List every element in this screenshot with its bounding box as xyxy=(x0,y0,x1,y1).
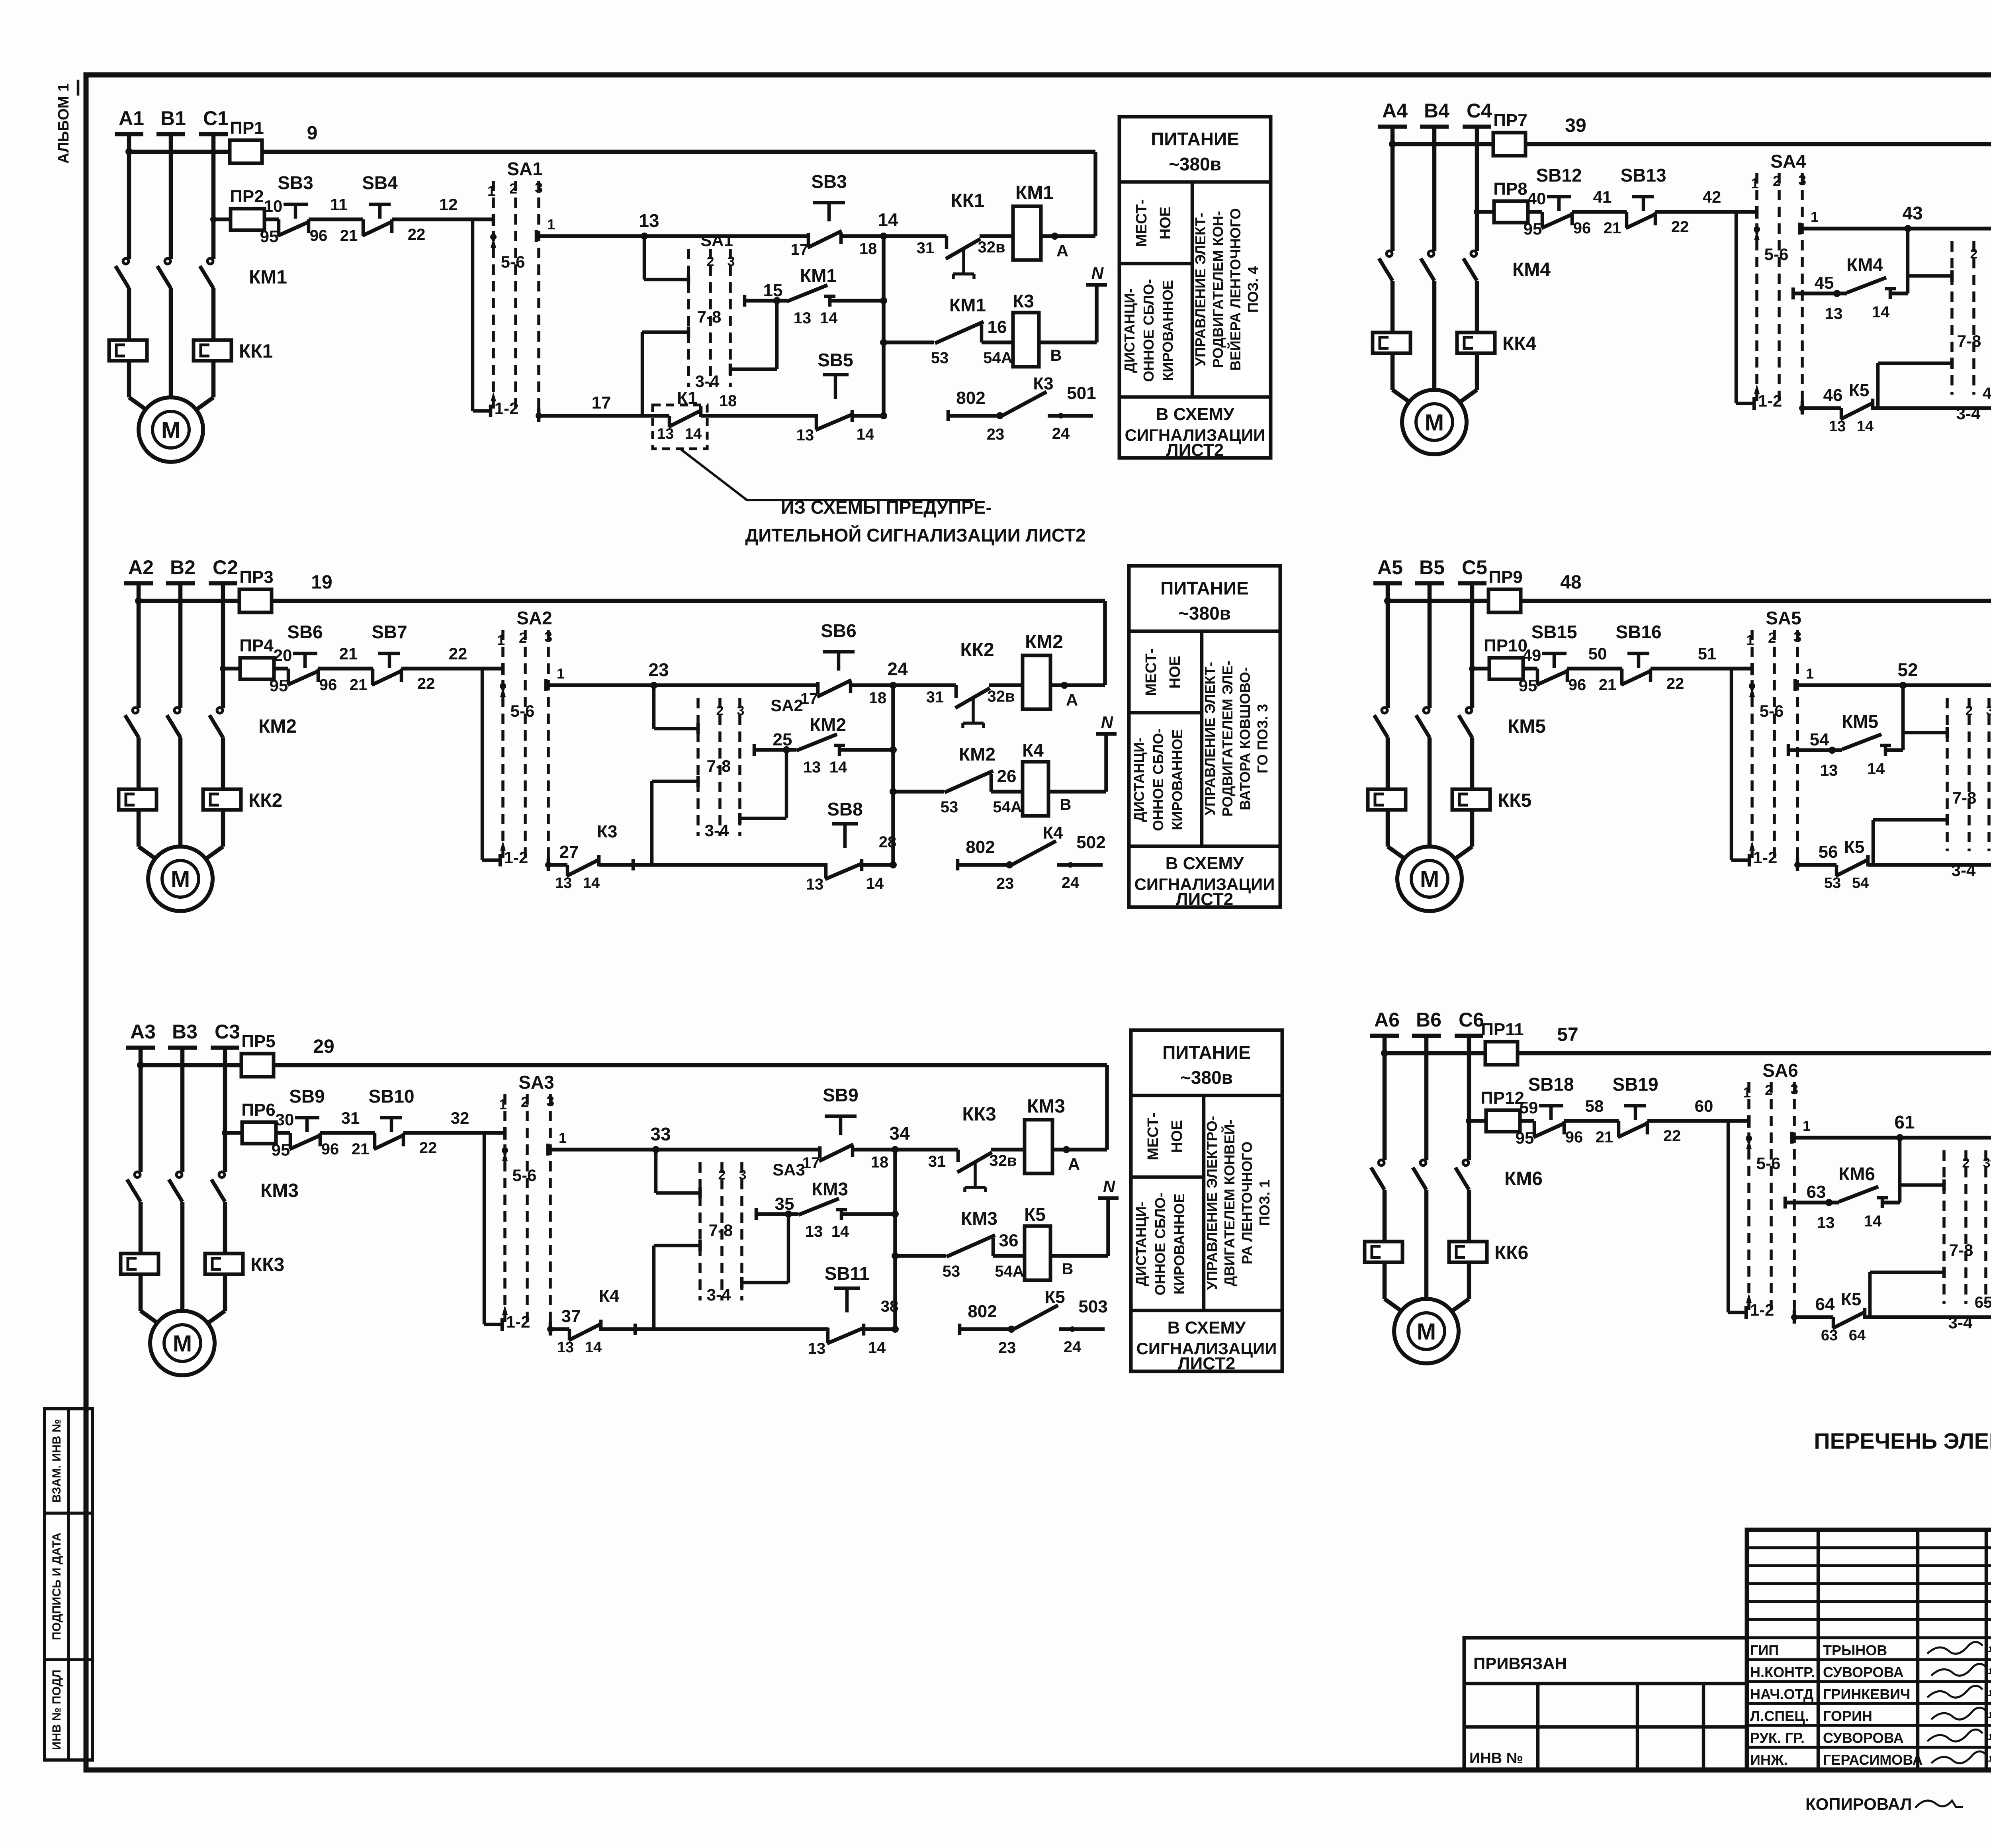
wire phase С6 vertical xyxy=(1467,1036,1471,1160)
svg-text:37: 37 xyxy=(561,1306,581,1326)
svg-text:С2: С2 xyxy=(213,556,238,579)
svg-text:3: 3 xyxy=(737,703,745,718)
svg-text:SB8: SB8 xyxy=(827,799,863,819)
wire bypass to SA lower contact xyxy=(1727,1121,1730,1312)
svg-text:ГО ПОЗ. 3: ГО ПОЗ. 3 xyxy=(1254,704,1271,773)
svg-text:3: 3 xyxy=(739,1167,747,1183)
motor M (А4 feed) xyxy=(1393,390,1414,405)
wire 61 top rail xyxy=(1794,1136,1991,1140)
svg-text:ВЗАМ. ИНВ №: ВЗАМ. ИНВ № xyxy=(50,1419,63,1503)
contactor КМ6 auxiliary contact 63 xyxy=(1784,1197,1787,1209)
svg-text:КИРОВАННОЕ: КИРОВАННОЕ xyxy=(1171,1193,1187,1295)
thermal relay КК4 heater elements xyxy=(1373,332,1410,353)
fuse ПР12 xyxy=(1486,1110,1520,1132)
svg-text:ОННОЕ СБЛО-: ОННОЕ СБЛО- xyxy=(1152,1193,1168,1295)
svg-text:НОЕ: НОЕ xyxy=(1157,207,1174,239)
contact К5 to signalling circuit (802/503) xyxy=(960,1327,1012,1331)
svg-text:11 10 86: 11 10 86 xyxy=(1988,1667,1991,1676)
pushbutton SB5 (NC) xyxy=(823,373,849,377)
svg-text:58: 58 xyxy=(1585,1097,1604,1115)
svg-text:ПР8: ПР8 xyxy=(1493,179,1527,199)
svg-text:5-6: 5-6 xyxy=(1760,702,1784,720)
svg-text:SB10: SB10 xyxy=(368,1086,414,1107)
pushbutton SB7 (NC) xyxy=(378,652,400,655)
svg-text:21: 21 xyxy=(339,644,358,663)
selector switch SA2 (poles 5-6 / 1-2) xyxy=(501,630,505,860)
svg-text:21: 21 xyxy=(1596,1128,1614,1146)
wire junction column xyxy=(893,1150,897,1329)
svg-text:22: 22 xyxy=(417,675,435,692)
svg-text:21: 21 xyxy=(350,676,368,694)
wire control tap through fuse ПР4 xyxy=(223,667,288,671)
contactor КМ1 main contacts xyxy=(123,258,129,264)
svg-text:2: 2 xyxy=(509,180,517,197)
svg-text:ПОДПИСЬ И ДАТА: ПОДПИСЬ И ДАТА xyxy=(50,1533,63,1640)
svg-text:18: 18 xyxy=(719,392,737,410)
svg-text:95: 95 xyxy=(270,676,288,695)
svg-text:К5: К5 xyxy=(1849,381,1869,400)
svg-text:13: 13 xyxy=(803,759,821,776)
pushbutton SB16 (NC) xyxy=(1627,652,1649,655)
svg-text:SA5: SA5 xyxy=(1766,608,1801,628)
svg-text:ПР11: ПР11 xyxy=(1481,1020,1524,1039)
svg-text:ПР10: ПР10 xyxy=(1484,636,1527,655)
wire control tap through fuse ПР2 xyxy=(213,217,279,221)
svg-text:2: 2 xyxy=(1773,173,1781,189)
svg-text:59: 59 xyxy=(1520,1098,1538,1117)
svg-text:~380в: ~380в xyxy=(1169,154,1221,174)
svg-text:13: 13 xyxy=(557,1339,574,1356)
svg-text:ПР9: ПР9 xyxy=(1488,567,1522,587)
svg-text:КК1: КК1 xyxy=(951,190,984,211)
svg-text:48: 48 xyxy=(1560,572,1581,593)
svg-text:501: 501 xyxy=(1067,383,1096,403)
svg-text:ПОЗ. 4: ПОЗ. 4 xyxy=(1245,266,1261,313)
dashed enclosure of contact К1 xyxy=(653,405,707,449)
fuse ПР1 xyxy=(230,140,262,163)
title block signature columns xyxy=(1817,1530,1820,1770)
svg-text:11 10 86: 11 10 86 xyxy=(1988,1711,1991,1720)
svg-text:23: 23 xyxy=(648,659,669,680)
pushbutton SB3 (control NC) xyxy=(813,201,845,205)
svg-text:ЛИСТ2: ЛИСТ2 xyxy=(1166,440,1224,460)
pushbutton SB18 (NC) xyxy=(1539,1104,1563,1108)
svg-text:Н.КОНТР.: Н.КОНТР. xyxy=(1750,1664,1815,1680)
svg-text:КК4: КК4 xyxy=(1502,333,1537,354)
svg-text:7-8: 7-8 xyxy=(709,1221,733,1240)
svg-text:13: 13 xyxy=(1829,418,1846,435)
wire phase А4 vertical xyxy=(1391,127,1395,251)
svg-text:SA4: SA4 xyxy=(1770,151,1806,172)
svg-text:С1: С1 xyxy=(203,107,229,129)
wire 22 xyxy=(401,667,503,671)
svg-text:N: N xyxy=(1103,1177,1116,1196)
svg-text:1: 1 xyxy=(557,665,565,682)
svg-text:1-2: 1-2 xyxy=(1758,391,1782,410)
svg-text:КК6: КК6 xyxy=(1494,1242,1528,1263)
svg-text:1: 1 xyxy=(497,632,505,648)
wire 43 top rail xyxy=(1802,227,1991,231)
title block rows with names xyxy=(1747,1636,1991,1639)
svg-text:SB13: SB13 xyxy=(1620,165,1666,186)
svg-text:КМ1: КМ1 xyxy=(949,295,986,315)
svg-text:ПИТАНИЕ: ПИТАНИЕ xyxy=(1160,578,1249,598)
svg-text:24: 24 xyxy=(1052,425,1070,442)
fuse ПР2 xyxy=(231,209,264,230)
svg-text:В СХЕМУ: В СХЕМУ xyxy=(1156,405,1234,424)
wire 42 xyxy=(1655,210,1757,214)
svg-text:КМ2: КМ2 xyxy=(1025,632,1063,653)
svg-text:11 10 86: 11 10 86 xyxy=(1988,1645,1991,1654)
svg-text:ВАТОРА КОВШОВО-: ВАТОРА КОВШОВО- xyxy=(1237,667,1253,810)
svg-text:5-6: 5-6 xyxy=(510,702,535,720)
svg-text:1-2: 1-2 xyxy=(506,1312,530,1331)
thermal relay КК3 NC contact xyxy=(956,1150,960,1162)
wire 64 bottom rail xyxy=(1794,1315,1833,1319)
svg-text:54: 54 xyxy=(1810,730,1829,749)
svg-text:НОЕ: НОЕ xyxy=(1167,656,1183,688)
svg-text:36: 36 xyxy=(999,1231,1019,1250)
svg-text:57: 57 xyxy=(1557,1024,1578,1045)
svg-text:96: 96 xyxy=(310,227,328,244)
svg-text:2: 2 xyxy=(1970,246,1978,262)
svg-text:А6: А6 xyxy=(1374,1009,1400,1031)
svg-text:31: 31 xyxy=(917,239,935,257)
svg-text:КМ3: КМ3 xyxy=(260,1180,299,1201)
svg-text:КМ4: КМ4 xyxy=(1846,254,1883,275)
wire bus drop to coil circuit xyxy=(1105,1065,1109,1150)
svg-text:14: 14 xyxy=(1872,303,1890,321)
svg-text:95: 95 xyxy=(1516,1128,1534,1147)
fuse ПР5 xyxy=(241,1054,274,1077)
svg-text:ПЕРЕЧЕНЬ ЭЛЕМЕНТОВ СМ. ЛИСТ: ПЕРЕЧЕНЬ ЭЛЕМЕНТОВ СМ. ЛИСТ АТХ-3 xyxy=(1814,1428,1991,1453)
svg-text:14: 14 xyxy=(866,875,884,892)
svg-text:КМ1: КМ1 xyxy=(249,267,287,288)
svg-text:14: 14 xyxy=(1864,1212,1882,1230)
svg-text:9: 9 xyxy=(307,123,318,144)
fuse ПР7 xyxy=(1493,133,1526,156)
wire phase С1 vertical xyxy=(211,134,216,259)
wire phase С2 vertical xyxy=(221,583,225,708)
fuse ПР10 xyxy=(1489,658,1523,679)
fuse ПР9 xyxy=(1488,589,1521,612)
svg-text:А2: А2 xyxy=(128,556,154,579)
fuse ПР3 xyxy=(239,589,272,612)
svg-text:21: 21 xyxy=(1604,219,1621,237)
wire 41 xyxy=(1572,210,1627,214)
svg-text:21: 21 xyxy=(1599,676,1617,694)
svg-text:В2: В2 xyxy=(170,556,196,579)
svg-text:17: 17 xyxy=(592,393,611,413)
svg-text:К4: К4 xyxy=(599,1286,620,1306)
svg-text:ПР6: ПР6 xyxy=(241,1100,275,1120)
svg-text:ИНЖ.: ИНЖ. xyxy=(1750,1752,1788,1768)
svg-text:47: 47 xyxy=(1983,385,1991,402)
wire 19 control bus xyxy=(139,599,1105,603)
wire 11 xyxy=(309,217,363,221)
info table: питание / управление xyxy=(1119,117,1271,458)
svg-text:SА2: SА2 xyxy=(771,696,803,715)
svg-text:ОННОЕ СБЛО-: ОННОЕ СБЛО- xyxy=(1150,728,1166,831)
svg-text:14: 14 xyxy=(857,426,874,443)
svg-text:А: А xyxy=(1056,241,1068,260)
svg-text:32в: 32в xyxy=(978,239,1005,256)
node N (neutral) xyxy=(1104,734,1108,792)
wire phase В1 vertical xyxy=(169,134,173,259)
svg-text:К5: К5 xyxy=(1044,1287,1065,1307)
svg-text:45: 45 xyxy=(1815,273,1834,293)
svg-text:В: В xyxy=(1062,1260,1074,1278)
svg-text:13: 13 xyxy=(796,426,814,444)
svg-text:31: 31 xyxy=(928,1153,946,1170)
wire 39 control bus xyxy=(1393,142,1991,147)
fuse ПР6 xyxy=(242,1122,276,1144)
svg-text:ПР3: ПР3 xyxy=(239,567,273,587)
thermal relay КК5 heater elements xyxy=(1368,789,1406,810)
selector switch SА1 (poles 7-8 / 3-4) xyxy=(643,236,646,280)
svg-text:С3: С3 xyxy=(215,1021,240,1043)
svg-text:ПР7: ПР7 xyxy=(1493,111,1527,130)
wire junction column xyxy=(882,236,886,416)
svg-text:26: 26 xyxy=(997,767,1017,786)
svg-text:51: 51 xyxy=(1698,644,1717,663)
thermal relay КК3 heater elements xyxy=(121,1254,158,1274)
svg-text:Л.СПЕЦ.: Л.СПЕЦ. xyxy=(1750,1708,1809,1724)
svg-text:38: 38 xyxy=(881,1298,899,1315)
svg-text:SB7: SB7 xyxy=(372,622,407,642)
wire control tap through fuse ПР8 xyxy=(1477,210,1542,214)
wire 46 bottom rail xyxy=(1802,406,1841,410)
svg-text:А3: А3 xyxy=(130,1021,156,1043)
svg-text:49: 49 xyxy=(1523,646,1541,665)
svg-text:96: 96 xyxy=(319,676,337,694)
svg-text:7-8: 7-8 xyxy=(697,307,722,326)
svg-text:503: 503 xyxy=(1078,1297,1107,1316)
motor M (А6 feed) xyxy=(1385,1299,1406,1314)
svg-text:SB6: SB6 xyxy=(287,622,323,642)
svg-text:1: 1 xyxy=(1803,1118,1811,1134)
svg-text:В3: В3 xyxy=(172,1021,198,1043)
svg-text:SA3: SA3 xyxy=(518,1072,554,1093)
relay coil К3 with КМ1 contact xyxy=(884,340,934,344)
svg-text:3: 3 xyxy=(535,180,543,196)
svg-text:13: 13 xyxy=(794,309,812,327)
svg-text:2: 2 xyxy=(718,1167,726,1183)
wire bypass to SA lower contact xyxy=(483,1133,486,1324)
svg-text:96: 96 xyxy=(1569,676,1586,694)
wire 52 top rail xyxy=(1797,683,1991,687)
svg-text:3: 3 xyxy=(1790,1081,1798,1097)
svg-text:ДИСТАНЦИ-: ДИСТАНЦИ- xyxy=(1131,737,1147,822)
wire phase А5 vertical xyxy=(1386,583,1390,708)
pushbutton SB11 (NC) xyxy=(834,1287,860,1290)
svg-text:12: 12 xyxy=(439,195,458,214)
svg-text:54А: 54А xyxy=(993,798,1022,816)
svg-text:13: 13 xyxy=(639,210,659,231)
svg-text:ГРИНКЕВИЧ: ГРИНКЕВИЧ xyxy=(1823,1686,1910,1702)
svg-text:КМ6: КМ6 xyxy=(1504,1168,1543,1189)
svg-text:23: 23 xyxy=(996,875,1014,892)
svg-text:ИНВ №: ИНВ № xyxy=(1469,1750,1523,1767)
svg-text:SB11: SB11 xyxy=(825,1263,870,1284)
svg-text:SА3: SА3 xyxy=(773,1160,805,1179)
svg-text:1: 1 xyxy=(1751,175,1759,192)
svg-text:14: 14 xyxy=(831,1223,849,1240)
svg-text:7-8: 7-8 xyxy=(1952,788,1977,807)
svg-text:ПР4: ПР4 xyxy=(239,636,274,655)
svg-text:65: 65 xyxy=(1975,1294,1991,1311)
svg-text:КМ1: КМ1 xyxy=(1015,182,1054,203)
svg-text:1-2: 1-2 xyxy=(495,399,519,418)
svg-text:КМ3: КМ3 xyxy=(812,1179,848,1199)
fuse ПР4 xyxy=(240,658,274,679)
svg-text:SA2: SA2 xyxy=(516,608,552,628)
wire 9 control bus xyxy=(129,150,1095,154)
svg-text:ПР2: ПР2 xyxy=(230,187,264,206)
svg-text:11 10 86: 11 10 86 xyxy=(1988,1689,1991,1698)
svg-text:ПИТАНИЕ: ПИТАНИЕ xyxy=(1151,129,1239,149)
svg-text:КК5: КК5 xyxy=(1498,790,1531,811)
wire phase А2 vertical xyxy=(137,583,141,708)
svg-text:ГЕРАСИМОВА: ГЕРАСИМОВА xyxy=(1823,1752,1923,1768)
svg-text:В: В xyxy=(1060,796,1072,814)
pushbutton SB15 (NC) xyxy=(1542,652,1567,655)
svg-text:1: 1 xyxy=(1806,665,1814,682)
pushbutton SB4 (NC) xyxy=(369,203,391,206)
svg-text:24: 24 xyxy=(887,659,908,679)
svg-text:40: 40 xyxy=(1527,189,1546,208)
svg-text:21: 21 xyxy=(340,227,358,244)
contactor КМ3 auxiliary contact 35 xyxy=(755,1208,758,1220)
svg-text:29: 29 xyxy=(313,1036,334,1057)
wire phase С4 vertical xyxy=(1475,127,1479,251)
svg-text:64: 64 xyxy=(1815,1295,1835,1314)
svg-text:52: 52 xyxy=(1897,659,1918,680)
pushbutton SB6 (control NC) xyxy=(823,650,855,654)
svg-text:КМ3: КМ3 xyxy=(1027,1096,1065,1117)
svg-text:53: 53 xyxy=(1824,875,1841,892)
svg-text:11 10 86: 11 10 86 xyxy=(1988,1754,1991,1764)
svg-text:15: 15 xyxy=(763,281,783,300)
pushbutton SB12 (NC) xyxy=(1547,195,1571,199)
wire control tap through fuse ПР10 xyxy=(1472,667,1537,671)
wire bus drop to coil circuit xyxy=(1093,152,1097,236)
svg-text:7-8: 7-8 xyxy=(1957,332,1981,350)
svg-text:53: 53 xyxy=(943,1263,960,1280)
svg-text:96: 96 xyxy=(1565,1128,1583,1146)
svg-text:5-6: 5-6 xyxy=(1764,245,1789,264)
svg-text:К5: К5 xyxy=(1841,1290,1861,1309)
svg-text:41: 41 xyxy=(1593,188,1612,206)
svg-text:КМ4: КМ4 xyxy=(1512,259,1551,280)
wire bypass to SA lower contact xyxy=(471,219,475,411)
svg-text:63: 63 xyxy=(1807,1182,1826,1202)
svg-text:2: 2 xyxy=(1962,1156,1970,1171)
svg-text:КОПИРОВАЛ: КОПИРОВАЛ xyxy=(1805,1795,1912,1813)
contact К4 to signalling circuit (802/502) xyxy=(958,863,1010,867)
contactor coil КМ2 xyxy=(1023,655,1050,709)
contactor КМ5 main contacts xyxy=(1382,708,1387,713)
svg-text:14: 14 xyxy=(1867,760,1885,778)
svg-text:20: 20 xyxy=(274,646,292,665)
svg-text:1: 1 xyxy=(1811,209,1819,225)
svg-text:2: 2 xyxy=(707,254,714,269)
svg-text:31: 31 xyxy=(341,1109,360,1127)
svg-text:1-2: 1-2 xyxy=(504,848,528,867)
svg-text:22: 22 xyxy=(419,1139,437,1157)
svg-text:МЕСТ-: МЕСТ- xyxy=(1143,648,1160,696)
svg-text:3: 3 xyxy=(544,629,552,645)
svg-text:5-6: 5-6 xyxy=(512,1166,537,1185)
svg-text:КМ1: КМ1 xyxy=(800,265,837,286)
svg-text:ПР1: ПР1 xyxy=(230,118,264,138)
svg-text:3-4: 3-4 xyxy=(695,372,720,391)
svg-text:2: 2 xyxy=(1966,703,1973,718)
svg-text:ИЗ СХЕМЫ ПРЕДУПРЕ-: ИЗ СХЕМЫ ПРЕДУПРЕ- xyxy=(781,497,992,518)
svg-text:В4: В4 xyxy=(1424,100,1449,122)
svg-text:53: 53 xyxy=(931,349,949,367)
selector switch SA6 (poles 5-6 / 1-2) xyxy=(1747,1082,1750,1312)
wire 32 xyxy=(403,1131,505,1135)
svg-text:ДИТЕЛЬНОЙ СИГНАЛИЗАЦИИ ЛИСТ2: ДИТЕЛЬНОЙ СИГНАЛИЗАЦИИ ЛИСТ2 xyxy=(745,525,1085,546)
motor M (А5 feed) xyxy=(1388,847,1409,862)
svg-text:802: 802 xyxy=(966,837,995,857)
svg-text:50: 50 xyxy=(1588,644,1607,663)
wire 12 xyxy=(392,217,493,221)
svg-text:В СХЕМУ: В СХЕМУ xyxy=(1168,1318,1246,1338)
svg-text:3: 3 xyxy=(1793,629,1801,645)
pushbutton SB9 (NC) xyxy=(295,1116,319,1120)
svg-text:14: 14 xyxy=(1857,418,1874,435)
wire phase В5 vertical xyxy=(1428,583,1432,708)
svg-text:А4: А4 xyxy=(1382,100,1408,122)
svg-text:22: 22 xyxy=(408,226,426,243)
svg-text:В5: В5 xyxy=(1419,556,1445,579)
svg-text:ДВИГАТЕЛЕМ КОНВЕЙ-: ДВИГАТЕЛЕМ КОНВЕЙ- xyxy=(1221,1120,1238,1287)
selector switch SA4 (poles 5-6 / 1-2) xyxy=(1755,173,1758,403)
contactor КМ2 auxiliary contact 25 xyxy=(753,744,756,756)
svg-text:SB4: SB4 xyxy=(362,172,398,193)
wire phase С3 vertical xyxy=(223,1048,227,1172)
selector switch SА5 (poles 7-8 / 3-4) xyxy=(1901,685,1905,750)
svg-text:53: 53 xyxy=(941,798,958,816)
svg-text:SB6: SB6 xyxy=(821,620,856,641)
motor M (А2 feed) xyxy=(139,847,160,862)
fuse ПР8 xyxy=(1494,201,1528,223)
svg-text:С6: С6 xyxy=(1459,1009,1484,1031)
svg-text:SA6: SA6 xyxy=(1762,1060,1798,1081)
svg-text:В6: В6 xyxy=(1416,1009,1441,1031)
svg-text:14: 14 xyxy=(585,1339,602,1356)
pushbutton SB10 (NC) xyxy=(380,1116,402,1120)
svg-text:56: 56 xyxy=(1819,842,1838,862)
wire phase С5 vertical xyxy=(1470,583,1475,708)
svg-text:54А: 54А xyxy=(983,349,1012,367)
svg-text:13: 13 xyxy=(805,1223,823,1240)
svg-text:КИРОВАННОЕ: КИРОВАННОЕ xyxy=(1169,729,1185,830)
svg-text:25: 25 xyxy=(773,730,792,749)
wire 56 bottom rail xyxy=(1797,863,1836,867)
svg-text:КК3: КК3 xyxy=(250,1254,284,1275)
svg-text:63: 63 xyxy=(1821,1327,1838,1344)
svg-text:10: 10 xyxy=(264,197,283,215)
contactor КМ1 auxiliary contact 15 xyxy=(743,295,747,307)
node N (neutral) xyxy=(1106,1198,1110,1256)
svg-text:13: 13 xyxy=(555,875,572,892)
svg-text:СУВОРОВА: СУВОРОВА xyxy=(1823,1664,1904,1680)
svg-text:К5: К5 xyxy=(1024,1204,1046,1225)
svg-text:33: 33 xyxy=(650,1124,671,1144)
